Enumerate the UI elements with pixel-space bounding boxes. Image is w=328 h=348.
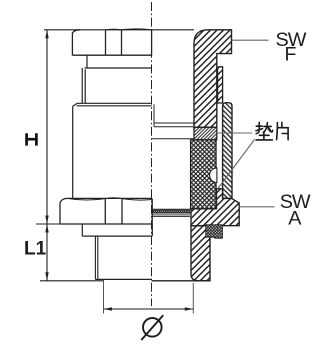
cap section SW F [194, 30, 232, 127]
diameter symbol [141, 315, 163, 340]
bore lines under thread [152, 215, 190, 217]
gasket capsule [210, 168, 217, 183]
top extension line [44, 29, 194, 31]
H dimension line [45, 30, 48, 224]
thread zigzag [152, 209, 191, 213]
bottom face line [95, 279, 210, 280]
SW A leader [239, 206, 274, 208]
H label [27, 133, 37, 145]
gasket washer band [194, 127, 217, 140]
svg-text:L1: L1 [24, 238, 47, 259]
body top and left edge [73, 103, 152, 198]
centerline axis [151, 2, 153, 306]
hex cap top (left view) [72, 29, 151, 55]
hex nut bottom (left view) [60, 198, 152, 224]
diameter dimension line [104, 307, 194, 310]
nut SW A [191, 189, 239, 226]
hex bottom extension line [36, 223, 62, 225]
gasket leader lines [217, 133, 255, 188]
threaded stud [95, 236, 97, 279]
stud bottom extension line [40, 280, 104, 282]
L1 dimension line [45, 224, 48, 281]
gasket label dianpian [256, 122, 288, 139]
packing block cross-hatched [191, 140, 216, 209]
neck stem [86, 55, 88, 68]
svg-text:A: A [288, 208, 302, 230]
washer plate [82, 224, 152, 236]
gap lines right of axis [152, 104, 194, 138]
svg-text:F: F [285, 43, 297, 65]
diameter witness lines [104, 282, 194, 314]
bottom tube [191, 226, 210, 281]
SW F leader [232, 39, 269, 41]
body column [223, 103, 232, 199]
collar [82, 68, 151, 103]
body tube strip [218, 67, 223, 103]
dark seal block [206, 225, 223, 238]
